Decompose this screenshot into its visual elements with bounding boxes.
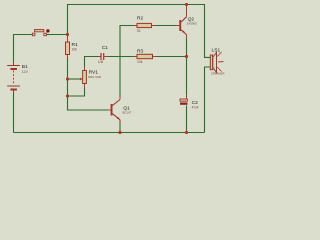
wire RV1 bottom to junction (68, 88, 85, 96)
svg-text:1n8: 1n8 (98, 60, 104, 64)
wire switch to node A (47, 34, 68, 36)
svg-text:47uF: 47uF (192, 106, 199, 110)
wire R2 to Q2 base (155, 25, 177, 27)
transistor Q1 (108, 97, 132, 124)
switch SW (32, 29, 49, 36)
wire Q2 emitter down to node (186, 39, 188, 57)
transistor Q2 (177, 5, 198, 39)
wire ground rail (14, 132, 205, 134)
wire node A up, top rail, down to speaker top (68, 5, 211, 58)
wire RV1 top to C1/R3 net (85, 57, 99, 67)
svg-text:R3: R3 (137, 48, 144, 54)
svg-text:33: 33 (137, 29, 141, 33)
node A junction (66, 33, 69, 36)
svg-text:LS1: LS1 (212, 48, 221, 54)
potentiometer RV1 (80, 67, 101, 89)
resistor R2 (134, 15, 156, 33)
svg-text:10k: 10k (72, 48, 78, 52)
wire speaker bottom to ground rail (205, 67, 211, 133)
node RV1 bottom junction (66, 94, 69, 97)
node R3 / Q2 emitter / C2 junction (185, 55, 188, 58)
wire Q1 collector up and across to R2 (120, 26, 134, 97)
battery B1 (7, 62, 28, 94)
wire C2 bottom to ground rail (186, 106, 188, 133)
speaker LS1 (210, 48, 224, 76)
node Q1 emitter / ground junction (118, 131, 121, 134)
node Q2 collector / top rail junction (185, 3, 188, 6)
capacitor C2 (180, 95, 199, 110)
capacitor C1 (98, 45, 108, 64)
wire Q1 emitter to ground rail (119, 120, 121, 133)
svg-text:10k: 10k (137, 60, 143, 64)
svg-text:12V: 12V (22, 70, 29, 74)
wire R3 to Q2 emitter node (156, 56, 187, 58)
resistor R1 (66, 35, 79, 59)
wire C1 to R3 (108, 56, 134, 58)
svg-text:C1: C1 (102, 45, 109, 51)
wire battery negative to ground rail (13, 94, 15, 133)
svg-text:2N3905: 2N3905 (187, 22, 198, 26)
node C2 / ground junction (185, 131, 188, 134)
wire RV1 wiper to junction (68, 78, 80, 80)
svg-text:BC107: BC107 (123, 111, 132, 115)
wire R1 bottom through junctions to Q1 base (68, 59, 109, 111)
svg-text:R2: R2 (137, 15, 144, 21)
wire battery positive to switch (14, 35, 33, 63)
wire node to C2 top (186, 57, 188, 96)
svg-text:SPEAKER: SPEAKER (211, 72, 225, 76)
node RV1 wiper junction (66, 77, 69, 80)
svg-text:RES-VAR: RES-VAR (88, 75, 101, 79)
resistor R3 (134, 48, 157, 64)
